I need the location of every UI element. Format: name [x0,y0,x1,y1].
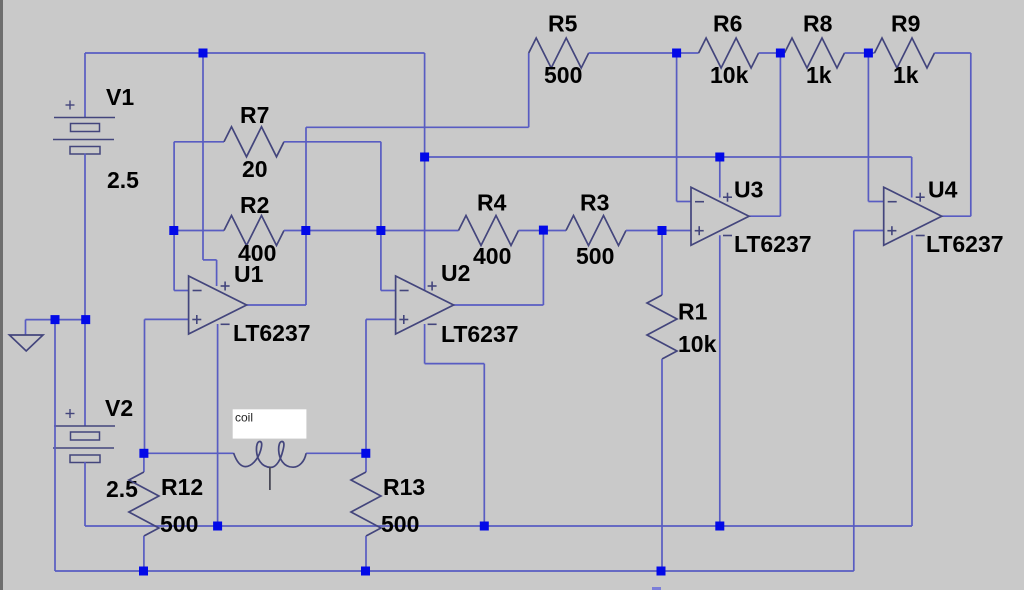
wire U4 V- pin column [911,235,913,526]
wire coil left lead [144,452,234,454]
resistor R4 [381,230,459,232]
svg-text:20: 20 [242,156,268,182]
svg-text:R8: R8 [803,11,833,37]
wire U3 inverting input column from R5/R6 node [676,53,678,202]
voltage source V1 [54,117,115,119]
resistor R13 [365,453,367,472]
wire ground column down-left [54,320,56,571]
svg-text:2.5: 2.5 [106,476,138,502]
wire V2 minus down to negative supply bus [84,462,86,526]
wire U4 non-inverting input column [853,231,855,572]
junction node ground tap [51,315,60,324]
wire negative supply bus V- [85,525,912,527]
junction node R3-R1 / U3 plus [658,226,667,235]
svg-text:400: 400 [473,243,511,269]
junction node R1 bottom [657,567,666,576]
wire U2 V- pin jog down to bus [424,324,426,364]
resistor R2 [174,230,224,232]
wire U4 inverting input column from R8/R9 node [867,53,869,202]
svg-text:2.5: 2.5 [107,167,139,193]
svg-text:1k: 1k [806,62,832,88]
junction node R5-R6 / U3 inv [672,49,681,58]
wire V1 top lead [84,53,86,118]
wire supply drop from top rail [424,53,426,157]
svg-text:LT6237: LT6237 [233,320,311,346]
resistor R3 [543,230,566,232]
svg-text:500: 500 [544,62,582,88]
svg-text:10k: 10k [710,62,749,88]
junction node U3 V- on bus [715,522,724,531]
svg-text:V1: V1 [106,84,134,110]
wire ground node to V1/V2 node [55,319,86,321]
resistor R12 [143,453,145,472]
svg-text:R4: R4 [477,189,507,215]
resistor R9 [868,52,874,54]
resistor R8 [780,52,784,54]
wire V+ rail right [720,156,912,158]
op-amp U1 [189,276,247,334]
svg-text:V2: V2 [105,395,133,421]
resistor R1 [661,231,663,296]
svg-text:R3: R3 [580,189,609,215]
inductor coil body [234,442,307,468]
svg-text:500: 500 [381,511,419,537]
wire U2 V+ pin stub [424,157,426,290]
op-amp U3 [691,187,749,245]
wire ground stub [26,319,56,321]
window left border strip [0,0,3,590]
svg-text:LT6237: LT6237 [926,231,1004,257]
junction node R13 bottom [361,567,370,576]
wire U1 inverting input column (R7/R2 left) [173,142,175,291]
junction node R12 bottom [139,567,148,576]
junction node R13 / coil right [361,449,370,458]
junction node R8-R9 / U4 inv [864,49,873,58]
junction node V1- / V2+ [81,315,90,324]
svg-text:R6: R6 [713,11,742,37]
junction node U2 V- on bus [480,522,489,531]
wire U1 V- pin down to bus [217,324,219,526]
resistor R5 [529,38,589,68]
junction node V+ rail / U2 V+ [420,153,429,162]
svg-text:LT6237: LT6237 [441,321,519,347]
svg-text:U1: U1 [234,261,264,287]
junction node V+ rail / U3 V+ [715,153,724,162]
svg-text:500: 500 [576,243,614,269]
wire U3 V+ pin stub [719,157,721,198]
resistor R7 [174,141,224,143]
svg-text:1k: 1k [893,62,919,88]
junction node R7 right / R4 left / U2 inv [376,226,385,235]
wire coil right lead [306,452,366,454]
coil label box [233,409,307,438]
svg-text:500: 500 [160,511,198,537]
ground [9,335,43,351]
wire U1 non-inverting input from ground net / R12 [145,318,189,320]
wire R2 row mid segment [306,230,381,232]
op-amp U2 [396,276,454,334]
wire U4 output up to R9 right [942,215,971,217]
wire top positive rail from V1 to supply drop [85,52,425,54]
svg-text:coil: coil [235,411,253,425]
wire V1 minus to ground node [84,154,86,320]
svg-text:LT6237: LT6237 [734,231,812,257]
wire R7 right column to U2 inverting input [380,142,382,291]
stray junction artifact at bottom edge [652,587,661,590]
svg-text:R5: R5 [548,11,578,37]
svg-text:R7: R7 [240,102,269,128]
svg-text:R2: R2 [240,192,269,218]
svg-text:R1: R1 [678,298,708,324]
wire V+ drop to U1 with jog [202,53,204,260]
wire bottom ground bus [55,570,854,572]
svg-text:U2: U2 [441,260,470,286]
wire V+ rail mid [425,156,720,158]
svg-text:R12: R12 [161,474,203,500]
voltage source V2 [54,425,115,427]
wire U3 output up to R6/R8 node [749,215,780,217]
resistor R6 [677,52,699,54]
svg-text:10k: 10k [678,331,717,357]
wire U3 V- pin down to bus [719,235,721,526]
op-amp U4 [884,187,942,245]
junction node R2-R7 left / U1 inv [169,226,178,235]
svg-text:R9: R9 [891,11,920,37]
junction node R6-R8 / U3 out [776,49,785,58]
junction node U1 V- on bus [213,522,222,531]
junction node R4-R3 / U2 out [539,226,548,235]
junction node R2 right / U1 out [301,226,310,235]
svg-text:U4: U4 [928,177,958,203]
wire ground node to V2 plus [84,320,86,426]
wire U3 non-inverting input from R3/R1 node [662,230,691,232]
coil center tap stub [269,467,271,490]
wire U2 non-inverting input down to R13 [366,318,396,320]
junction node R12 / coil left [139,449,148,458]
wire U2 output up to R4/R3 node [454,304,544,306]
svg-text:R13: R13 [383,474,425,500]
junction node V1+ / top rail [199,49,208,58]
svg-text:U3: U3 [734,177,763,203]
wire U1 output up to feedback and R5 [247,304,306,306]
